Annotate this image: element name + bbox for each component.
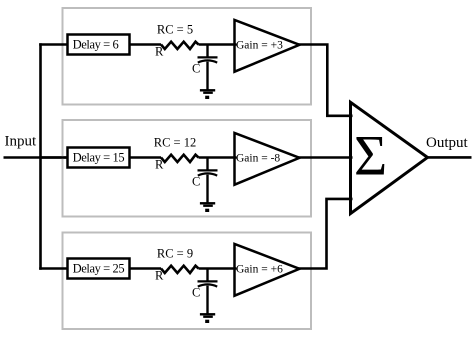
wire: resistor to gain amp, with capacitor tap node bbox=[199, 43, 237, 46]
svg-text:C: C bbox=[192, 62, 200, 76]
wire: resistor to gain amp, with capacitor tap node bbox=[199, 267, 237, 270]
svg-text:Delay = 15: Delay = 15 bbox=[73, 150, 125, 164]
svg-text:RC = 5: RC = 5 bbox=[157, 23, 193, 37]
capacitor C (branch 2) bbox=[198, 158, 218, 204]
capacitor C (branch 3) bbox=[198, 269, 218, 315]
svg-text:Gain = +6: Gain = +6 bbox=[236, 263, 283, 275]
wire: branch 2 amp output to summer middle input bbox=[298, 156, 353, 159]
resistor R (branch 1) bbox=[161, 42, 199, 49]
svg-text:Gain = +3: Gain = +3 bbox=[236, 39, 283, 51]
wire: delay 1 output to resistor bbox=[130, 43, 162, 46]
delay block 1: Delay = 6 bbox=[68, 35, 130, 55]
wire: resistor to gain amp, with capacitor tap node bbox=[199, 156, 237, 159]
summer U4: sigma adder bbox=[351, 102, 428, 213]
wire: input distribution trunk bbox=[39, 43, 42, 270]
resistor R (branch 2) bbox=[161, 155, 199, 162]
delay block 3: Delay = 25 bbox=[68, 259, 130, 279]
svg-text:Σ: Σ bbox=[354, 124, 387, 187]
wire: trunk to delay block 2 bbox=[39, 156, 69, 159]
svg-text:R: R bbox=[155, 158, 164, 172]
branch 1 enclosure box bbox=[63, 8, 312, 105]
ground (branch 3) bbox=[200, 314, 215, 323]
wire: summer output lead bbox=[426, 156, 472, 159]
svg-text:Delay = 6: Delay = 6 bbox=[73, 37, 119, 51]
delay block 2: Delay = 15 bbox=[68, 148, 130, 168]
svg-text:Input: Input bbox=[5, 134, 37, 150]
resistor R (branch 3) bbox=[161, 266, 199, 273]
wire: branch 1 amp output to summer top input bbox=[298, 45, 353, 116]
svg-text:RC = 9: RC = 9 bbox=[157, 247, 193, 261]
svg-text:R: R bbox=[155, 45, 164, 59]
svg-text:Output: Output bbox=[426, 135, 469, 151]
svg-text:Delay = 25: Delay = 25 bbox=[73, 261, 125, 275]
capacitor C (branch 1) bbox=[198, 45, 218, 91]
gain amplifier (branch 2): Gain = -8 bbox=[235, 133, 300, 185]
wire: trunk to delay block 1 bbox=[39, 43, 69, 46]
svg-text:RC = 12: RC = 12 bbox=[154, 136, 196, 150]
wire: delay 3 output to resistor bbox=[130, 267, 162, 270]
ground (branch 1) bbox=[200, 90, 215, 99]
wire: delay 2 output to resistor bbox=[130, 156, 162, 159]
svg-text:C: C bbox=[192, 286, 200, 300]
svg-text:R: R bbox=[155, 269, 164, 283]
branch 3 enclosure box bbox=[63, 233, 312, 330]
gain amplifier (branch 1): Gain = +3 bbox=[235, 20, 300, 72]
wire: trunk to delay block 3 bbox=[39, 267, 69, 270]
wire: input lead bbox=[4, 156, 70, 159]
branch 2 enclosure box bbox=[63, 120, 312, 217]
svg-text:Gain = -8: Gain = -8 bbox=[236, 152, 280, 164]
svg-text:C: C bbox=[192, 175, 200, 189]
wire: branch 3 amp output to summer bottom input bbox=[298, 199, 353, 269]
ground (branch 2) bbox=[200, 203, 215, 212]
gain amplifier (branch 3): Gain = +6 bbox=[235, 244, 300, 296]
